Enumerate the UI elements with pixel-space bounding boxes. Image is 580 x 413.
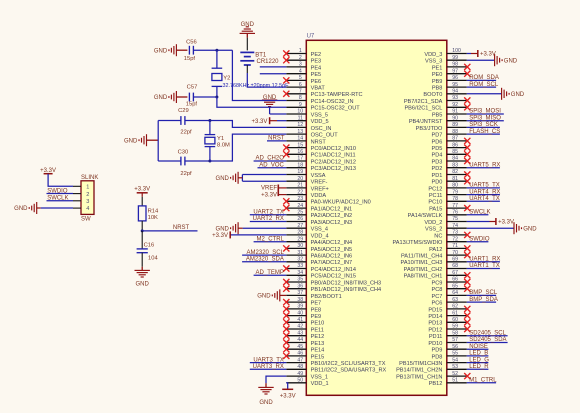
svg-text:GND: GND bbox=[154, 95, 168, 101]
svg-text:PB5: PB5 bbox=[432, 112, 443, 118]
svg-text:15pf: 15pf bbox=[186, 102, 198, 108]
svg-text:C30: C30 bbox=[178, 150, 189, 156]
svg-text:PE3: PE3 bbox=[311, 59, 322, 65]
wire: pin 13 stub bbox=[286, 133, 306, 135]
capacitor C16 104 bbox=[137, 243, 159, 262]
no-ERC marker pin 87 bbox=[464, 138, 470, 144]
svg-text:GND: GND bbox=[154, 48, 168, 54]
wire: pin 73 stub bbox=[447, 234, 467, 236]
wire: pin 23 stub bbox=[286, 200, 306, 202]
svg-text:PE4: PE4 bbox=[311, 65, 322, 71]
svg-text:PD11: PD11 bbox=[429, 334, 443, 340]
net label UART5_TX pin 80 bbox=[467, 183, 500, 189]
net label UART2_RX pin 26 bbox=[250, 216, 286, 222]
svg-text:+3.3V: +3.3V bbox=[280, 394, 296, 400]
no-ERC marker pin 30 bbox=[283, 245, 289, 251]
svg-text:VDD_2: VDD_2 bbox=[424, 220, 442, 226]
svg-text:PC13-TAMPER-RTC: PC13-TAMPER-RTC bbox=[311, 92, 363, 98]
svg-text:BT1: BT1 bbox=[255, 53, 267, 59]
net label AD_TEMP pin 34 bbox=[254, 270, 287, 276]
svg-text:NRST: NRST bbox=[173, 225, 190, 231]
battery BT1 CR1220 bbox=[240, 52, 279, 73]
svg-text:PA7/ADC12_IN7: PA7/ADC12_IN7 bbox=[311, 260, 353, 266]
ground pin 74 bbox=[467, 222, 537, 234]
no-ERC marker pin 92 bbox=[464, 104, 470, 110]
svg-text:PD5: PD5 bbox=[432, 146, 443, 152]
svg-text:LED_B: LED_B bbox=[469, 351, 488, 357]
wire: pin 6 stub bbox=[286, 86, 306, 88]
wire: pin 25 stub bbox=[286, 214, 306, 216]
wire: pin 64 stub bbox=[447, 294, 467, 296]
junction C56/Y2 bbox=[215, 49, 218, 52]
svg-text:VREF-: VREF- bbox=[311, 180, 328, 186]
svg-text:VSS_2: VSS_2 bbox=[425, 227, 442, 233]
svg-text:PB1/ADC12_IN9/TIM3_CH4: PB1/ADC12_IN9/TIM3_CH4 bbox=[311, 287, 382, 293]
net label LED_G pin 54 bbox=[467, 357, 489, 363]
wire: pin 47 stub bbox=[286, 362, 306, 364]
net label NRST wire bbox=[142, 225, 197, 231]
wire: pin 66 stub bbox=[447, 281, 467, 283]
svg-text:PE9: PE9 bbox=[311, 314, 322, 320]
svg-text:NC: NC bbox=[434, 233, 442, 239]
svg-text:PB11/I2C2_SDA/USART3_RX: PB11/I2C2_SDA/USART3_RX bbox=[311, 368, 387, 374]
svg-text:PA14/SWCLK: PA14/SWCLK bbox=[408, 213, 443, 219]
net label SPI3_SCK pin 89 bbox=[467, 122, 500, 128]
wire: pin 1 stub bbox=[286, 53, 306, 55]
pin names right side pins 100-51 bbox=[392, 52, 443, 387]
svg-text:LED_R: LED_R bbox=[469, 364, 489, 370]
svg-text:PA9/TIM1_CH2: PA9/TIM1_CH2 bbox=[404, 267, 443, 273]
wire: pin 53 stub bbox=[447, 368, 467, 370]
svg-text:Y2: Y2 bbox=[223, 75, 230, 81]
svg-text:1: 1 bbox=[86, 185, 89, 191]
ground at SLINK pin 4 bbox=[14, 202, 73, 214]
wire: pin 68 stub bbox=[447, 268, 467, 270]
wire: pin 30 stub bbox=[286, 247, 306, 249]
svg-text:PC6: PC6 bbox=[432, 301, 443, 307]
wire BT1 to pin 6 VBAT bbox=[247, 73, 286, 87]
svg-text:PC3/ADC12_IN13: PC3/ADC12_IN13 bbox=[311, 166, 356, 172]
no-ERC marker pin 7 bbox=[283, 91, 289, 97]
wire: pin 22 stub bbox=[286, 194, 306, 196]
svg-text:3: 3 bbox=[86, 199, 89, 205]
svg-text:PC9: PC9 bbox=[432, 280, 443, 286]
capacitor C29 22pf bbox=[158, 108, 210, 135]
no-ERC marker pin 70 bbox=[464, 252, 470, 258]
wire: pin 86 stub bbox=[447, 147, 467, 149]
wire: pin 19 stub bbox=[286, 174, 306, 176]
wire Y1 left rail bbox=[157, 121, 159, 162]
ground at C57 bbox=[154, 91, 188, 103]
no-ERC marker pin 24 bbox=[283, 205, 289, 211]
wire: pin 92 stub bbox=[447, 106, 467, 108]
wire: pin 93 stub bbox=[447, 100, 467, 102]
net label AD_CH2O pin 17 bbox=[254, 156, 287, 162]
svg-text:SWCLK: SWCLK bbox=[469, 210, 490, 216]
svg-text:22pf: 22pf bbox=[180, 129, 192, 135]
wire: pin 12 stub bbox=[286, 126, 306, 128]
wire: pin 70 stub bbox=[447, 254, 467, 256]
svg-text:SPI3_MISO: SPI3_MISO bbox=[469, 115, 501, 121]
net label LED_R pin 53 bbox=[467, 364, 489, 370]
svg-text:GND: GND bbox=[259, 400, 273, 406]
net label SWDIO bbox=[47, 188, 74, 194]
svg-text:PA1/ADC12_IN1: PA1/ADC12_IN1 bbox=[311, 207, 353, 213]
wire: pin 54 stub bbox=[447, 362, 467, 364]
svg-text:PD12: PD12 bbox=[428, 327, 442, 333]
svg-text:PE15: PE15 bbox=[311, 354, 325, 360]
svg-text:BMP_SDA: BMP_SDA bbox=[469, 297, 498, 303]
svg-text:PD13: PD13 bbox=[428, 321, 442, 327]
svg-text:C57: C57 bbox=[187, 84, 198, 90]
svg-text:PD9: PD9 bbox=[432, 348, 443, 354]
svg-text:PC7: PC7 bbox=[432, 294, 443, 300]
svg-text:PC12: PC12 bbox=[428, 186, 442, 192]
ground pin 27 VSS_4 bbox=[216, 222, 287, 234]
net label AD_VOC pin 18 bbox=[258, 162, 287, 168]
wire: pin 95 stub bbox=[447, 86, 467, 88]
svg-text:NRST: NRST bbox=[311, 139, 327, 145]
svg-text:PB6/I2C1_SCL: PB6/I2C1_SCL bbox=[404, 106, 442, 112]
wire: pin 94 stub bbox=[447, 93, 467, 95]
svg-text:PB8: PB8 bbox=[432, 86, 443, 92]
svg-text:AM2320_SDA: AM2320_SDA bbox=[246, 257, 284, 263]
wire: pin 49 stub bbox=[286, 375, 306, 377]
svg-text:PC1/ADC12_IN11: PC1/ADC12_IN11 bbox=[311, 153, 356, 159]
wire: pin 51 stub bbox=[447, 382, 467, 384]
wire: pin 15 stub bbox=[286, 147, 306, 149]
svg-text:PE6: PE6 bbox=[311, 79, 322, 85]
wire: pin 18 stub bbox=[286, 167, 306, 169]
wire: pin 36 stub bbox=[286, 288, 306, 290]
svg-text:SD2405_SCL: SD2405_SCL bbox=[469, 330, 506, 336]
svg-text:PE13: PE13 bbox=[311, 341, 325, 347]
ground above battery BT1 bbox=[240, 22, 255, 38]
svg-text:AD_CH2O: AD_CH2O bbox=[256, 156, 285, 162]
wire: pin 77 stub bbox=[447, 207, 467, 209]
svg-text:PE1: PE1 bbox=[432, 65, 443, 71]
svg-text:M1_CTRL: M1_CTRL bbox=[469, 378, 497, 384]
no-ERC marker pin 5 bbox=[283, 77, 289, 83]
wire: pin 39 stub bbox=[286, 308, 306, 310]
svg-text:VSS_4: VSS_4 bbox=[311, 227, 328, 233]
junction Y1 bottom bbox=[208, 160, 211, 163]
svg-text:PA4/ADC12_IN4: PA4/ADC12_IN4 bbox=[311, 240, 353, 246]
capacitor C57 15pf bbox=[186, 84, 198, 107]
designator U7 bbox=[307, 34, 315, 40]
wire: pin 59 stub bbox=[447, 328, 467, 330]
no-ERC marker pin 38 bbox=[283, 299, 289, 305]
svg-text:SW: SW bbox=[81, 216, 91, 222]
svg-text:BMP_SCL: BMP_SCL bbox=[469, 290, 498, 296]
svg-text:UART3_RX: UART3_RX bbox=[253, 364, 284, 370]
svg-text:LED_G: LED_G bbox=[469, 357, 489, 363]
no-ERC marker pin 1 bbox=[283, 50, 289, 56]
pin names left side pins 1-50 bbox=[311, 52, 387, 387]
wire: pin 91 stub bbox=[447, 113, 467, 115]
no-ERC marker pin 40 bbox=[283, 313, 289, 319]
wire: pin 89 stub bbox=[447, 126, 467, 128]
svg-text:PB9: PB9 bbox=[432, 79, 443, 85]
svg-text:PE12: PE12 bbox=[311, 334, 325, 340]
svg-text:PC2/ADC12_IN12: PC2/ADC12_IN12 bbox=[311, 159, 356, 165]
svg-text:GND: GND bbox=[511, 92, 525, 98]
svg-text:PA11/TIM1_CH4: PA11/TIM1_CH4 bbox=[401, 254, 442, 260]
no-ERC marker pin 46 bbox=[283, 353, 289, 359]
svg-text:UART1_RX: UART1_RX bbox=[469, 257, 500, 263]
svg-text:+3.3V: +3.3V bbox=[40, 168, 56, 174]
wire: pin 96 stub bbox=[447, 79, 467, 81]
svg-text:PE8: PE8 bbox=[311, 307, 322, 313]
wire: pin 17 stub bbox=[286, 160, 306, 162]
wire node to C16 bbox=[141, 231, 143, 249]
no-ERC marker pin 97 bbox=[464, 71, 470, 77]
wire C57 to Y2 bottom bbox=[193, 96, 217, 98]
svg-text:SPI3_MOSI: SPI3_MOSI bbox=[469, 109, 501, 115]
svg-text:PA10/TIM1_CH3: PA10/TIM1_CH3 bbox=[401, 260, 443, 266]
power +3.3V pin 28 VDD_4 bbox=[212, 231, 286, 239]
ground pins 19-20 VSSA/VREF- bbox=[216, 172, 287, 184]
net label AM2320_SCL pin 31 bbox=[242, 250, 286, 256]
no-ERC marker pin 36 bbox=[283, 286, 289, 292]
svg-text:VSS_1: VSS_1 bbox=[311, 375, 328, 381]
svg-text:PD2: PD2 bbox=[432, 166, 443, 172]
svg-text:U7: U7 bbox=[307, 34, 315, 40]
ground pin 10 bbox=[262, 95, 286, 114]
net label SD2405_SDA pin 57 bbox=[467, 337, 508, 343]
wire: pin 27 stub bbox=[286, 227, 306, 229]
svg-text:VDD_4: VDD_4 bbox=[311, 233, 329, 239]
wire: pin 99 stub bbox=[447, 59, 467, 61]
ground pin 99 bbox=[467, 54, 518, 66]
svg-text:PE5: PE5 bbox=[311, 72, 322, 78]
svg-text:ROM_SCL: ROM_SCL bbox=[469, 82, 499, 88]
wire: pin 58 stub bbox=[447, 335, 467, 337]
svg-text:PC15-OSC32_OUT: PC15-OSC32_OUT bbox=[311, 106, 361, 112]
power VREF +3.3V pins 21-22 bbox=[261, 185, 286, 199]
svg-text:VBAT: VBAT bbox=[311, 86, 326, 92]
svg-text:UART5_RX: UART5_RX bbox=[469, 162, 500, 168]
wire: pin 11 stub bbox=[286, 120, 306, 122]
no-ERC marker pin 73 bbox=[464, 232, 470, 238]
wire pin 4 bbox=[260, 73, 287, 75]
svg-text:SPI3_SCK: SPI3_SCK bbox=[469, 122, 498, 128]
svg-text:GND: GND bbox=[504, 58, 518, 64]
svg-text:PD8: PD8 bbox=[432, 354, 443, 360]
svg-text:UART5_TX: UART5_TX bbox=[469, 183, 500, 189]
svg-text:GND: GND bbox=[216, 226, 230, 232]
svg-text:PE0: PE0 bbox=[432, 72, 443, 78]
ground pin 49 VSS_1 bbox=[258, 376, 286, 406]
svg-text:PD15: PD15 bbox=[428, 307, 442, 313]
svg-text:PD7: PD7 bbox=[432, 133, 443, 139]
svg-text:PB3/JTDO: PB3/JTDO bbox=[416, 126, 443, 132]
svg-text:M2_CTRL: M2_CTRL bbox=[257, 236, 285, 242]
svg-text:PA5/ADC12_IN5: PA5/ADC12_IN5 bbox=[311, 247, 353, 253]
wire: pin 16 stub bbox=[286, 153, 306, 155]
wire: pin 61 stub bbox=[447, 315, 467, 317]
wire: pin 76 stub bbox=[447, 214, 467, 216]
wire: pin 88 stub bbox=[447, 133, 467, 135]
svg-text:GND: GND bbox=[14, 206, 28, 212]
no-ERC marker pin 41 bbox=[283, 319, 289, 325]
svg-text:+3.3V: +3.3V bbox=[252, 119, 268, 125]
svg-text:10K: 10K bbox=[148, 215, 158, 221]
junction NRST node bbox=[141, 229, 144, 232]
no-ERC marker pin 81 bbox=[464, 178, 470, 184]
power +3.3V pin 75 bbox=[467, 218, 514, 226]
net label FLASH_CS pin 88 bbox=[467, 129, 500, 135]
wire: pin 14 stub bbox=[286, 140, 306, 142]
wire: pin 45 stub bbox=[286, 348, 306, 350]
svg-text:UART4_RX: UART4_RX bbox=[469, 189, 500, 195]
net label BMP_SDA pin 63 bbox=[467, 297, 498, 303]
svg-text:NOISE: NOISE bbox=[469, 344, 488, 350]
svg-text:ROM_SDA: ROM_SDA bbox=[469, 75, 499, 81]
wire: pin 33 stub bbox=[286, 268, 306, 270]
wire: pin 57 stub bbox=[447, 342, 467, 344]
svg-text:PE14: PE14 bbox=[311, 348, 325, 354]
ground at Y1 block bbox=[124, 134, 158, 146]
wire: pin 4 stub bbox=[286, 73, 306, 75]
no-ERC marker pin 23 bbox=[283, 198, 289, 204]
svg-text:PB0/ADC12_IN8/TIM3_CH3: PB0/ADC12_IN8/TIM3_CH3 bbox=[311, 280, 382, 286]
svg-text:+3.3V: +3.3V bbox=[134, 187, 150, 193]
svg-text:VSS_3: VSS_3 bbox=[425, 59, 442, 65]
svg-text:PB13/TIM1_CH1N: PB13/TIM1_CH1N bbox=[396, 375, 442, 381]
wire: pin 3 stub bbox=[286, 66, 306, 68]
capacitor C30 22pf bbox=[158, 150, 210, 177]
net label SWDIO pin 72 bbox=[467, 236, 490, 242]
wire: pin 48 stub bbox=[286, 368, 306, 370]
svg-text:AD_TEMP: AD_TEMP bbox=[256, 270, 284, 276]
ground pin 94 bbox=[467, 88, 525, 100]
svg-text:VDDA: VDDA bbox=[311, 193, 327, 199]
svg-text:PA8/TIM1_CH1: PA8/TIM1_CH1 bbox=[404, 274, 443, 280]
wire: pin 41 stub bbox=[286, 321, 306, 323]
wire: pin 35 stub bbox=[286, 281, 306, 283]
svg-text:SWDIO: SWDIO bbox=[47, 188, 68, 194]
net label UART3_TX pin 47 bbox=[250, 357, 286, 363]
net label UART4_RX pin 79 bbox=[467, 189, 501, 195]
wire: pin 28 stub bbox=[286, 234, 306, 236]
svg-text:FLASH_CS: FLASH_CS bbox=[469, 129, 500, 135]
wire: pin 29 stub bbox=[286, 241, 306, 243]
power +3.3V at SLINK pin 1 bbox=[40, 168, 73, 186]
net label NOISE pin 56 bbox=[467, 344, 489, 350]
wire: pin 50 stub bbox=[286, 382, 306, 384]
wire: pin 5 stub bbox=[286, 79, 306, 81]
wire: pin 60 stub bbox=[447, 321, 467, 323]
svg-text:PD4: PD4 bbox=[432, 153, 443, 159]
svg-text:UART4_TX: UART4_TX bbox=[469, 196, 500, 202]
wire: pin 83 stub bbox=[447, 167, 467, 169]
net label SD2405_SCL pin 58 bbox=[467, 330, 508, 336]
svg-text:22pf: 22pf bbox=[180, 171, 192, 177]
wire: pin 10 stub bbox=[286, 113, 306, 115]
svg-text:PA0-WKUP/ADC12_IN0: PA0-WKUP/ADC12_IN0 bbox=[311, 200, 371, 206]
svg-text:OSC_IN: OSC_IN bbox=[311, 126, 332, 132]
wire: pin 42 stub bbox=[286, 328, 306, 330]
svg-text:PE2: PE2 bbox=[311, 52, 322, 58]
wire: pin 38 stub bbox=[286, 301, 306, 303]
net label M2_CTRL pin 29 bbox=[254, 236, 287, 242]
wire: pin 87 stub bbox=[447, 140, 467, 142]
net label SPI3_MISO pin 90 bbox=[467, 115, 504, 121]
svg-text:VDD_1: VDD_1 bbox=[311, 381, 329, 387]
svg-text:PA13/JTMS/SWDIO: PA13/JTMS/SWDIO bbox=[392, 240, 443, 246]
net label AM2320_SDA pin 32 bbox=[242, 257, 286, 263]
wire: pin 69 stub bbox=[447, 261, 467, 263]
svg-text:PD0: PD0 bbox=[432, 180, 443, 186]
wire: pin 75 stub bbox=[447, 221, 467, 223]
svg-text:C29: C29 bbox=[178, 108, 189, 114]
svg-text:PC0/ADC12_IN10: PC0/ADC12_IN10 bbox=[311, 146, 356, 152]
svg-text:+3.3V: +3.3V bbox=[498, 220, 514, 226]
wire C16 to ground bbox=[141, 253, 143, 271]
wire: pin 8 stub bbox=[286, 100, 306, 102]
power +3.3V pin 50 VDD_1 bbox=[280, 383, 296, 400]
wire: pin 71 stub bbox=[447, 247, 467, 249]
svg-text:2: 2 bbox=[86, 192, 89, 198]
wire: pin 97 stub bbox=[447, 73, 467, 75]
svg-text:15pf: 15pf bbox=[184, 56, 196, 62]
svg-text:PD1: PD1 bbox=[432, 173, 443, 179]
svg-text:+3.3V: +3.3V bbox=[212, 233, 228, 239]
net label ROM_SDA pin 96 bbox=[467, 75, 499, 81]
svg-text:VDD_5: VDD_5 bbox=[311, 119, 329, 125]
net label SPI3_MOSI pin 91 bbox=[467, 109, 504, 115]
net label UART2_TX pin 25 bbox=[250, 210, 286, 216]
no-ERC marker pin 42 bbox=[283, 326, 289, 332]
net label LED_B pin 55 bbox=[467, 351, 489, 357]
svg-text:PB7/I2C1_SDA: PB7/I2C1_SDA bbox=[404, 99, 443, 105]
svg-text:PB4/JNTRST: PB4/JNTRST bbox=[409, 119, 443, 125]
svg-text:PB12: PB12 bbox=[429, 381, 443, 387]
wire: pin 2 stub bbox=[286, 59, 306, 61]
wire ground to BT1 bbox=[246, 38, 248, 51]
svg-text:Y1: Y1 bbox=[217, 136, 224, 142]
no-ERC marker pin 16 bbox=[283, 151, 289, 157]
svg-text:VSSA: VSSA bbox=[311, 173, 326, 179]
no-ERC marker pin 35 bbox=[283, 279, 289, 285]
wire node to pin 9 OSC32_OUT bbox=[217, 97, 286, 107]
no-ERC marker pin 45 bbox=[283, 346, 289, 352]
wire: pin 34 stub bbox=[286, 274, 306, 276]
connector SLINK SW bbox=[73, 175, 98, 222]
svg-text:AM2320_SCL: AM2320_SCL bbox=[247, 250, 285, 256]
svg-text:SWCLK: SWCLK bbox=[47, 196, 68, 202]
svg-text:PD10: PD10 bbox=[428, 341, 442, 347]
no-ERC marker pin 98 bbox=[464, 64, 470, 70]
wire: pin 9 stub bbox=[286, 106, 306, 108]
wire: pin 65 stub bbox=[447, 288, 467, 290]
crystal Y1 8.0M bbox=[205, 121, 230, 162]
svg-text:OSC_OUT: OSC_OUT bbox=[311, 133, 339, 139]
svg-text:PD3: PD3 bbox=[432, 159, 443, 165]
svg-text:104: 104 bbox=[148, 256, 158, 262]
net label UART1_TX pin 68 bbox=[467, 263, 500, 269]
power +3.3V pin 100 bbox=[467, 50, 496, 58]
svg-text:GND: GND bbox=[523, 226, 537, 232]
wire: pin 21 stub bbox=[286, 187, 306, 189]
wire: pin 52 stub bbox=[447, 375, 467, 377]
wire: pin 80 stub bbox=[447, 187, 467, 189]
net label BMP_SCL pin 64 bbox=[467, 290, 498, 296]
svg-text:VDD_3: VDD_3 bbox=[424, 52, 442, 58]
wire R14 to NRST node bbox=[141, 221, 143, 231]
wire: pin 20 stub bbox=[286, 180, 306, 182]
